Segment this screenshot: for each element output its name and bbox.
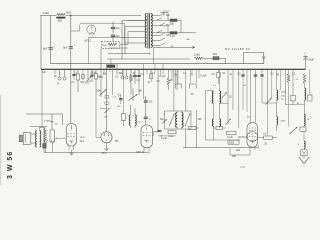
wire drop x106: [106, 64, 108, 132]
IFT2 link: [213, 103, 215, 119]
wire x42 long: [41, 69, 43, 127]
node bus junction: [285, 69, 287, 71]
wire tap drop C: [127, 32, 129, 45]
resistor Rm2: [189, 126, 197, 129]
node bus junction: [304, 69, 306, 71]
capacitor Ch1: [73, 69, 75, 74]
wire loop right vertical: [124, 23, 126, 44]
resistor Rb5: [121, 114, 125, 121]
IFT1 coil A: [176, 113, 177, 128]
svg-text:0,5: 0,5: [90, 81, 94, 83]
wire fuse row2: [151, 32, 170, 34]
svg-text:50: 50: [223, 73, 226, 75]
node bus junction: [134, 69, 136, 71]
transformer T2 secondary: [40, 131, 41, 148]
transformer T2 primary: [36, 131, 37, 148]
capacitor C-coupling: [143, 64, 145, 99]
tube V4 envelope: [141, 125, 153, 148]
svg-text:0,3: 0,3: [100, 77, 104, 79]
speaker LS: [23, 133, 31, 145]
svg-text:1k: 1k: [230, 74, 233, 76]
wire drop x288: [288, 83, 290, 127]
svg-text:15: 15: [307, 119, 310, 121]
IFT2 trim arrow 1: [222, 92, 227, 98]
wire drop x238.8: [238, 69, 240, 128]
node bus junction: [261, 69, 263, 71]
pot arrow small: [162, 120, 166, 124]
capacitor C4 8uF: [111, 34, 115, 36]
svg-text:2k: 2k: [296, 79, 299, 81]
wire drop x151: [150, 69, 152, 78]
wire drop x172: [171, 69, 173, 80]
tube V3 electrodes: [104, 135, 105, 136]
resistor R-right1: [287, 74, 290, 83]
svg-text:0,3: 0,3: [271, 73, 275, 75]
svg-text:AZ 11: AZ 11: [85, 40, 92, 43]
potentiometer P-vol arrow: [100, 90, 107, 96]
svg-text:0,1μF: 0,1μF: [227, 137, 234, 139]
wire drop x267.6: [267, 69, 269, 110]
wire x196 down: [196, 110, 198, 148]
wire drop x83: [82, 69, 84, 78]
svg-text:0,1: 0,1: [74, 73, 78, 75]
antenna arrow: [303, 156, 305, 159]
wire drop x117: [116, 64, 118, 75]
wire drop x182: [177, 69, 179, 83]
wire speaker top: [31, 133, 37, 135]
potentiometer P-vol: [132, 88, 134, 101]
wire primary tap 5: [122, 37, 147, 39]
svg-text:3 W 56: 3 W 56: [7, 151, 14, 179]
svg-text:+: +: [53, 45, 55, 48]
IFT2 coil B1: [220, 91, 221, 103]
svg-text:30Ω: 30Ω: [58, 20, 63, 23]
resistor R-dropper body: [57, 17, 66, 19]
jack J1 arrow: [262, 56, 265, 60]
svg-text:0,1: 0,1: [72, 82, 76, 84]
resistor R heater: [195, 57, 203, 59]
box Ch6: [150, 74, 153, 79]
fuse F2: [170, 32, 177, 34]
node top-line junction: [70, 15, 72, 17]
IFT2 coil A1: [212, 91, 213, 103]
wire drop x158: [157, 69, 159, 131]
tube V2 grid: [67, 135, 75, 137]
wire heater line 2: [203, 57, 214, 59]
wire V4 bottom leads: [143, 148, 145, 153]
wire drop x55: [54, 69, 56, 74]
wire drop x163: [162, 64, 164, 74]
resistor Rg V2: [44, 129, 47, 143]
node bus junction: [246, 69, 248, 71]
wire x44 vertical: [43, 127, 45, 152]
svg-text:+: +: [73, 44, 75, 47]
svg-text:5k: 5k: [175, 74, 178, 76]
wire drop x280.8: [280, 69, 282, 90]
wire drop x147: [146, 69, 148, 74]
transformer T1 left winding: [145, 14, 146, 48]
coil ant A: [304, 84, 306, 89]
wire V5 left line: [230, 154, 250, 156]
switch blade W1: [265, 98, 271, 104]
svg-text:2000: 2000: [281, 121, 287, 123]
node bus junction: [276, 69, 278, 71]
ground V2: [70, 150, 72, 154]
wire V5 bottom: [249, 147, 251, 155]
wire osc link: [262, 102, 277, 104]
potentiometer P-tone: [87, 69, 89, 84]
wire drop x110: [109, 64, 111, 72]
IFT2 frame: [206, 91, 241, 141]
IFT2 trim arrow 2: [226, 119, 231, 125]
wire top line mid: [66, 15, 141, 17]
svg-text:2,5M: 2,5M: [168, 136, 173, 138]
svg-text:1,2kΩ: 1,2kΩ: [194, 54, 201, 57]
coil ant B: [304, 114, 305, 126]
svg-text:0,1μF: 0,1μF: [160, 76, 167, 78]
wire tap drop B: [124, 27, 126, 54]
wire fuse row1b: [177, 19, 181, 21]
node bus junction: [50, 69, 52, 71]
wire drop x187: [189, 69, 191, 83]
coil ant C: [304, 141, 305, 149]
wire heater line: [107, 58, 190, 60]
wire drop x243: [242, 69, 244, 110]
staple cap A: [175, 84, 181, 89]
node bus junction: [255, 69, 257, 71]
wire staple drops: [174, 69, 176, 83]
node bus junction: [189, 69, 191, 71]
svg-text:0,1: 0,1: [141, 74, 145, 76]
wire drop x247: [246, 69, 248, 112]
capacitor C-filter2 8uF: [69, 46, 73, 48]
svg-text:0,5: 0,5: [212, 74, 216, 76]
node bus junction: [267, 69, 269, 71]
bus chassis line: [41, 68, 306, 70]
wire drop x92: [91, 69, 93, 76]
svg-text:8μF: 8μF: [43, 48, 48, 50]
svg-text:1k: 1k: [133, 73, 136, 75]
node bus junction: [87, 69, 89, 71]
capacitor Ch5: [138, 69, 140, 75]
node bus junction: [295, 69, 297, 71]
svg-text:1M: 1M: [139, 91, 142, 93]
tube V2 cathode: [69, 141, 73, 143]
wire drop x192: [191, 69, 193, 74]
capacitor C-right 50uF: [305, 55, 307, 69]
svg-text:2k: 2k: [170, 80, 173, 82]
wire primary tap 3: [125, 26, 147, 28]
capacitor Ch3: [91, 69, 93, 74]
wire tap drop A: [121, 21, 123, 60]
tube V2 anode: [70, 126, 72, 130]
svg-text:500: 500: [281, 95, 285, 97]
capacitor C-filter1 8uF: [49, 47, 53, 49]
svg-text:2000: 2000: [281, 92, 287, 94]
svg-text:50Ω: 50Ω: [213, 53, 218, 56]
svg-text:0,1: 0,1: [263, 134, 267, 136]
tube V5 envelope: [247, 123, 258, 148]
wire NV box: [244, 53, 264, 64]
wire heater line 3: [219, 57, 226, 59]
wire rectifier loop: [80, 23, 125, 37]
IFT2 coil B2: [220, 119, 221, 126]
box ant bottom: [301, 150, 307, 156]
transformer T1 right winding: [151, 14, 152, 48]
svg-text:50k: 50k: [81, 82, 86, 84]
resistor Rb1: [77, 69, 79, 74]
switch S1 tap 5: [151, 45, 160, 47]
node bus junction: [250, 69, 252, 71]
tube V1 anode mark: [91, 27, 93, 30]
svg-text:466: 466: [190, 94, 194, 96]
wire fuse row2b: [177, 32, 196, 34]
tube V5 grids: [249, 127, 256, 129]
svg-text:100: 100: [117, 106, 121, 108]
switch S1 tap 3: [151, 35, 160, 37]
wire IFT1 bottom wire: [158, 135, 176, 137]
resistor R-grid box: [50, 130, 55, 142]
node bus junction: [70, 69, 72, 71]
terminal Y1: [44, 140, 47, 153]
node bus junction: [120, 69, 122, 71]
coil osc B: [277, 117, 278, 125]
wire V3 bottom: [106, 143, 108, 146]
svg-text:50μF: 50μF: [309, 58, 315, 61]
svg-text:AL4: AL4: [80, 140, 85, 143]
svg-text:50: 50: [265, 144, 268, 146]
box ant mid: [300, 127, 306, 131]
wire primary tap 1: [140, 15, 142, 17]
resistor Rm1: [168, 131, 176, 134]
switch blade W2: [290, 127, 297, 134]
terminal pair P2: [121, 76, 124, 79]
wire T2 to V2: [39, 127, 41, 130]
wire grid V5 a: [250, 69, 252, 122]
coil AF grid: [129, 115, 130, 125]
capacitor Cm1: [158, 129, 162, 131]
wire HT vertical A: [50, 16, 52, 64]
wire rf link: [285, 104, 304, 106]
tube V1 filament mark: [89, 32, 94, 35]
capacitor Cr2: [261, 69, 263, 103]
staple cap B: [189, 84, 196, 89]
wire V2 bottom: [68, 146, 70, 150]
wire stub x110.9: [110, 59, 112, 64]
scan edge: [0, 95, 2, 185]
wire drop x285.3: [284, 69, 286, 104]
tube V3 envelope: [101, 132, 112, 143]
wire rectifier feed: [71, 30, 80, 32]
svg-text:4μF: 4μF: [42, 72, 47, 74]
tube V4 grid1: [143, 132, 151, 134]
svg-text:0,1μF: 0,1μF: [201, 75, 208, 77]
wire drop x155: [154, 64, 156, 72]
svg-text:0,5MΩ: 0,5MΩ: [44, 121, 51, 123]
svg-text:80: 80: [277, 74, 280, 76]
capacitor Cb2: [134, 69, 136, 75]
svg-text:EBF 11: EBF 11: [137, 151, 145, 154]
wire stub rowB: [160, 25, 168, 27]
svg-text:5kΩ: 5kΩ: [102, 45, 106, 47]
svg-text:+: +: [304, 52, 306, 55]
wire choke bottom A: [120, 43, 128, 45]
wire drop x199: [198, 69, 200, 78]
svg-text:5000: 5000: [229, 142, 235, 144]
wire rect cathode: [88, 37, 90, 63]
svg-text:75: 75: [281, 99, 284, 101]
wire mains top line: [40, 15, 56, 17]
wire primary tap 2: [128, 20, 147, 22]
resistor R-dropper zigzag: [57, 14, 66, 16]
resistor R-rf box: [292, 69, 294, 95]
tube V4 grid2: [143, 135, 151, 137]
tube V1 rectifier envelope: [87, 25, 96, 34]
box right edge: [309, 69, 311, 95]
wire stub rowA: [160, 12, 168, 14]
wire y140 to box: [228, 140, 239, 144]
svg-text:50: 50: [229, 97, 232, 99]
wire pilot arrowhead: [192, 46, 195, 48]
node bus junction: [219, 69, 221, 71]
resistor Rb3: [105, 96, 109, 98]
tube V4 anode: [146, 127, 148, 130]
tube V5 bulb: [247, 131, 257, 141]
svg-text:NV 12/18P 42: NV 12/18P 42: [225, 47, 250, 51]
svg-text:50Ω: 50Ω: [170, 24, 175, 26]
svg-text:0,2: 0,2: [152, 73, 156, 75]
wire drop x101: [100, 49, 102, 98]
wire drop x160: [160, 69, 162, 75]
svg-text:AB 2: AB 2: [102, 152, 108, 155]
switch S1 tap 4: [151, 40, 160, 42]
svg-text:466: 466: [160, 119, 165, 121]
svg-text:8μF: 8μF: [116, 27, 121, 30]
wire sel line arrow: [108, 53, 150, 55]
svg-text:0,1: 0,1: [113, 97, 117, 99]
node bus junction: [232, 69, 234, 71]
IFT1 trim arrow A: [169, 114, 174, 126]
node bus junction: [112, 69, 114, 71]
box b-right: [216, 73, 220, 78]
wire long x186: [185, 129, 187, 148]
svg-text:0,5M: 0,5M: [91, 73, 96, 75]
wire fuse row1: [151, 19, 170, 21]
resistor Rb6: [168, 69, 170, 78]
svg-text:1,5kΩ: 1,5kΩ: [43, 12, 50, 15]
IFT1 coil B: [182, 113, 183, 128]
box fuse spk: [43, 144, 47, 149]
node IFT1 left: [164, 113, 165, 114]
svg-text:0,1A: 0,1A: [170, 35, 175, 38]
svg-text:7μF: 7μF: [104, 116, 108, 118]
svg-text:8μF: 8μF: [116, 35, 121, 38]
choke L1 dashed box: [102, 41, 120, 48]
wire ant mid: [303, 131, 305, 141]
resistor Rm3: [216, 126, 223, 129]
node Ch4: [103, 69, 105, 73]
resistor Rb2: [95, 69, 97, 73]
wire grid V5 b: [255, 69, 257, 122]
capacitor Cb1: [119, 98, 122, 100]
wire drop x228: [227, 69, 229, 124]
svg-text:0,5: 0,5: [157, 81, 161, 83]
svg-text:78V: 78V: [115, 141, 120, 143]
ground V3: [106, 146, 108, 150]
bus AVC bottom: [183, 147, 259, 149]
svg-text:6: 6: [298, 144, 300, 146]
terminal pair P1: [58, 77, 61, 80]
svg-text:2kΩ: 2kΩ: [236, 150, 240, 152]
svg-text:1k: 1k: [148, 82, 151, 84]
terminal Y2: [51, 140, 54, 153]
resistor Rb4: [130, 69, 132, 74]
svg-text:Ts: Ts: [57, 83, 60, 86]
wire HT vertical B: [70, 16, 72, 124]
fuse F1: [170, 19, 177, 22]
node bus junction: [292, 69, 294, 71]
wire drop x177: [176, 69, 178, 90]
svg-text:0,1: 0,1: [213, 85, 217, 87]
wire IFT1 vert B: [185, 69, 187, 111]
svg-text:8μF: 8μF: [63, 47, 68, 49]
box Ch2: [82, 78, 84, 80]
wire pilot line: [154, 46, 196, 48]
wire IFT1 vert A: [173, 69, 175, 111]
svg-text:0,1μF: 0,1μF: [161, 138, 168, 140]
svg-text:2k: 2k: [191, 74, 194, 76]
svg-text:0,5M: 0,5M: [96, 91, 101, 93]
wire coil-V4: [135, 121, 141, 123]
capacitor C3 8uF: [111, 26, 115, 28]
svg-text:0,1: 0,1: [115, 76, 119, 78]
choke L1 winding: [108, 43, 117, 46]
svg-text:0,1: 0,1: [137, 80, 141, 82]
svg-text:0,1: 0,1: [183, 73, 187, 75]
node bus left: [45, 69, 47, 71]
switch S1 tap 1: [151, 15, 160, 17]
svg-text:25: 25: [54, 76, 57, 78]
wire choke bottom B: [109, 47, 128, 49]
wire drop x139: [138, 69, 140, 95]
transformer T1 core: [147, 13, 149, 49]
node bus junction: [171, 69, 173, 71]
IFT2 coil A2: [212, 119, 213, 126]
svg-text:250V: 250V: [80, 137, 86, 139]
svg-text:50: 50: [55, 124, 58, 126]
resistor R-right2: [303, 74, 306, 84]
bus HT line: [51, 63, 264, 65]
svg-text:ECH 11: ECH 11: [239, 136, 248, 139]
svg-text:0,2: 0,2: [238, 73, 242, 75]
box Rm4: [227, 131, 237, 135]
wire drop x271.8: [271, 69, 273, 98]
wire grid line V2: [26, 114, 63, 130]
svg-text:1941: 1941: [240, 166, 246, 169]
wire drop x112.5b: [112, 69, 114, 95]
wire drop x233: [232, 69, 234, 110]
bus cathode bottom: [44, 152, 148, 154]
svg-text:50: 50: [244, 85, 247, 87]
tube V2 envelope: [66, 124, 76, 147]
capacitor C-grid V4: [144, 116, 148, 118]
svg-text:0,1: 0,1: [292, 73, 296, 75]
resistor R barretter: [213, 57, 219, 60]
wire mains left drop: [40, 16, 42, 69]
wire primary tap 4: [128, 31, 147, 33]
wire primary tap 6: [125, 42, 147, 44]
svg-text:1n: 1n: [149, 119, 152, 121]
